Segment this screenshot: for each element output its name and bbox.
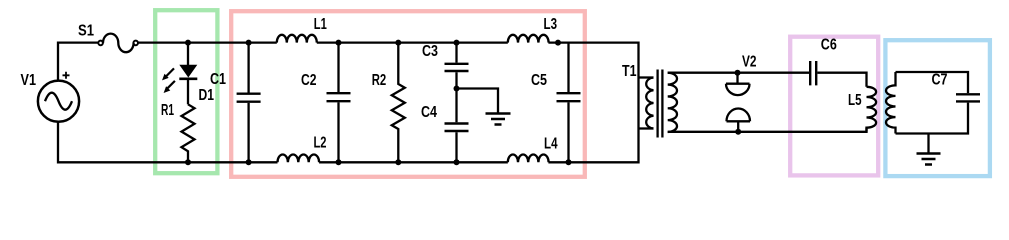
wire top rail after L3: [548, 43, 638, 163]
capacitor C1: [237, 43, 261, 163]
resistor R2: [392, 43, 405, 163]
wire secondary top rail: [668, 72, 809, 74]
svg-text:L3: L3: [544, 16, 558, 33]
highlight box purple (coupling section): [790, 37, 878, 176]
svg-text:L2: L2: [314, 135, 327, 152]
svg-text:C1: C1: [210, 71, 226, 88]
inductor L2: [278, 155, 320, 163]
ground (filter): [486, 114, 511, 125]
svg-text:V1: V1: [21, 72, 37, 89]
wire ground branch: [457, 89, 499, 114]
svg-text:C4: C4: [421, 104, 437, 121]
capacitor C3: [445, 43, 469, 89]
ground (tank): [917, 154, 941, 165]
capacitor C7: [956, 94, 980, 101]
node C3 top: [454, 40, 460, 46]
spark gap V2: [726, 73, 750, 132]
svg-text:L5: L5: [848, 92, 862, 109]
wire top rail left: [58, 43, 98, 81]
svg-text:D1: D1: [199, 87, 215, 104]
node C4 bottom: [454, 159, 460, 165]
svg-text:C5: C5: [531, 72, 547, 89]
wire secondary bottom rail: [668, 128, 867, 132]
capacitor C4: [445, 89, 469, 163]
svg-text:T1: T1: [622, 63, 637, 80]
capacitor C6: [810, 61, 816, 85]
wire top rail after L1: [317, 41, 508, 43]
node C2 top: [336, 40, 342, 46]
svg-text:L1: L1: [314, 16, 327, 33]
LED D1: [162, 43, 197, 105]
inductor L1: [277, 35, 317, 43]
node C3-C4 junction: [454, 86, 460, 92]
node R1 bottom: [185, 159, 191, 165]
wire tank top: [896, 72, 969, 93]
svg-text:S1: S1: [78, 23, 94, 40]
inductor L3: [508, 35, 549, 43]
node C5 bottom: [566, 159, 572, 165]
voltage source V1: [38, 72, 79, 122]
svg-text:R1: R1: [161, 102, 174, 119]
capacitor C2: [327, 43, 351, 163]
svg-text:C6: C6: [821, 37, 837, 54]
svg-text:R2: R2: [372, 72, 387, 89]
wire bottom rail: [58, 122, 278, 163]
svg-text:L4: L4: [544, 136, 558, 153]
transformer T1: [639, 70, 678, 138]
coupled coil secondary: [886, 72, 896, 134]
wire tank ground stem: [927, 134, 929, 154]
node R2 bottom: [395, 159, 401, 165]
node V2 top: [735, 70, 741, 76]
wire top rail main: [138, 41, 277, 43]
inductor L4: [508, 155, 549, 163]
wire secondary top rail after C6: [817, 73, 866, 87]
svg-text:C7: C7: [932, 72, 948, 89]
node C2 bottom: [336, 159, 342, 165]
node after L3: [555, 40, 561, 46]
wire tank bottom: [896, 103, 969, 134]
svg-text:C3: C3: [422, 43, 438, 60]
capacitor C5: [557, 43, 581, 163]
wire bottom rail mid: [319, 161, 508, 163]
node C1 bottom: [246, 159, 252, 165]
highlight box blue (tank section): [885, 40, 990, 176]
node V2 bottom: [735, 129, 741, 135]
node C1 top: [246, 40, 252, 46]
node R2 top: [395, 40, 401, 46]
inductor L5: [867, 87, 877, 132]
breaker S1: [98, 34, 138, 53]
node D1 top: [185, 40, 191, 46]
svg-text:V2: V2: [742, 54, 757, 71]
highlight box green (LED section): [155, 10, 217, 173]
resistor R1: [182, 104, 195, 162]
highlight box red (filter section): [231, 11, 585, 177]
svg-text:C2: C2: [301, 72, 317, 89]
